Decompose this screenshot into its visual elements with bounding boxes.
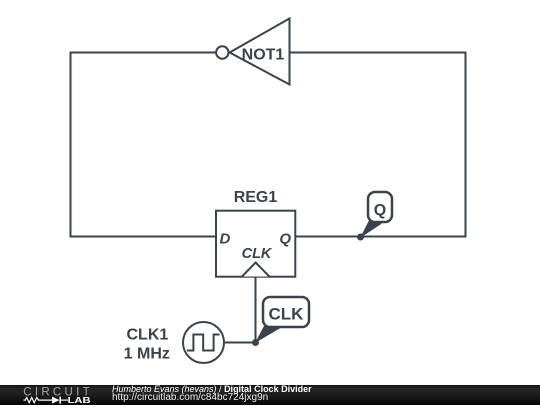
svg-text:NOT1: NOT1 — [242, 47, 285, 64]
wire from REG1 CLK pin down to clock junction — [255, 277, 257, 343]
svg-text:CLK1: CLK1 — [127, 327, 169, 344]
svg-text:Q: Q — [374, 202, 386, 219]
svg-text:1 MHz: 1 MHz — [124, 345, 170, 362]
clock source square wave symbol — [187, 335, 220, 351]
wire from clock source CLK1 to junction — [224, 342, 256, 344]
wire from NOT1 input right, down, to Q output of REG1 — [290, 53, 466, 237]
clock source CLK1 circle — [183, 322, 224, 363]
node CLK junction dot — [252, 339, 259, 346]
CircuitLab logo resistor zigzag — [24, 398, 53, 403]
svg-text:D: D — [220, 230, 231, 247]
flag Q balloon — [368, 192, 392, 222]
svg-text:REG1: REG1 — [234, 189, 278, 206]
CircuitLab logo diode symbol — [52, 397, 60, 404]
flag CLK balloon — [263, 297, 309, 327]
inverter NOT1 triangle — [230, 19, 290, 85]
flag CLK pointer wedge — [255, 325, 283, 343]
inverter NOT1 bubble — [216, 46, 228, 58]
flag Q pointer wedge — [360, 220, 382, 239]
footer credit line — [112, 384, 312, 394]
node Q junction dot — [357, 234, 364, 241]
REG1 clock edge triangle — [242, 263, 269, 277]
wire from NOT1 output bubble left, down, to D input of REG1 — [71, 53, 217, 237]
svg-text:CLK: CLK — [269, 305, 305, 324]
D flip-flop REG1 body — [216, 211, 295, 277]
footer url line — [112, 393, 268, 403]
svg-text:LAB: LAB — [68, 395, 91, 405]
svg-text:CLK: CLK — [242, 246, 273, 262]
svg-text:Q: Q — [279, 230, 291, 247]
